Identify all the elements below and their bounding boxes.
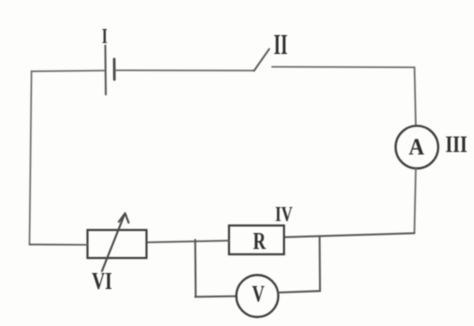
switch II lever — [254, 49, 269, 71]
rheostat arrow — [102, 215, 125, 272]
rheostat VI box — [88, 230, 147, 258]
svg-text:R: R — [253, 227, 266, 255]
wire rheostat to bottom-left corner — [30, 244, 88, 246]
wire right vertical to ammeter — [415, 67, 416, 126]
voltmeter branch bottom-left wire — [195, 295, 236, 298]
voltmeter branch left vertical wire — [194, 240, 197, 297]
voltmeter branch right vertical wire — [319, 236, 321, 291]
battery cell I short plate — [113, 59, 116, 80]
svg-text:III: III — [445, 131, 467, 157]
wire battery to switch — [116, 69, 255, 71]
resistor R box — [229, 226, 284, 255]
voltmeter branch bottom-right wire — [278, 291, 320, 293]
svg-text:I: I — [102, 24, 108, 47]
voltmeter U: circle — [236, 275, 278, 317]
rheostat arrowhead — [119, 213, 129, 222]
wire switch to top-right corner — [272, 66, 415, 69]
battery cell I long plate — [104, 46, 107, 95]
wire top-left horizontal — [32, 70, 105, 73]
wire bottom-right horizontal — [284, 233, 414, 237]
svg-text:V: V — [252, 282, 265, 307]
svg-text:II: II — [274, 30, 288, 61]
ammeter U: circle — [396, 126, 439, 169]
svg-text:IV: IV — [275, 203, 293, 227]
wire ammeter to bottom-right corner — [414, 169, 415, 234]
wire R to rheostat — [147, 241, 230, 243]
svg-text:A: A — [409, 134, 424, 160]
svg-text:VI: VI — [92, 267, 112, 294]
wire left vertical — [30, 71, 32, 245]
